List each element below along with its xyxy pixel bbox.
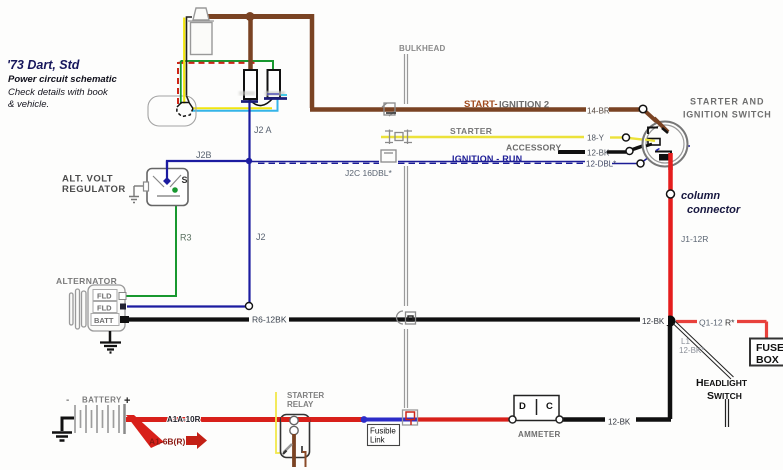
svg-text:ACCESSORY: ACCESSORY — [506, 143, 561, 153]
svg-text:IGNITION SWITCH: IGNITION SWITCH — [683, 110, 772, 120]
svg-text:14-BR: 14-BR — [587, 107, 610, 116]
svg-text:J2C 16DBL*: J2C 16DBL* — [345, 168, 392, 178]
svg-text:J2 A: J2 A — [254, 125, 272, 135]
svg-text:S: S — [182, 175, 188, 185]
svg-text:-: - — [66, 395, 69, 406]
svg-text:IGNITION 2: IGNITION 2 — [499, 100, 549, 111]
svg-text:ALTERNATOR: ALTERNATOR — [56, 276, 117, 286]
svg-text:BULKHEAD: BULKHEAD — [399, 44, 446, 53]
svg-text:J2B: J2B — [196, 150, 212, 160]
svg-text:A1-6B(R): A1-6B(R) — [149, 437, 186, 447]
svg-text:STARTER AND: STARTER AND — [690, 97, 765, 107]
svg-text:IGNITION - RUN: IGNITION - RUN — [452, 154, 522, 164]
svg-text:AMMETER: AMMETER — [518, 430, 561, 439]
svg-text:HEADLIGHT: HEADLIGHT — [696, 377, 748, 389]
svg-text:R3: R3 — [180, 233, 192, 243]
svg-text:STARTER: STARTER — [450, 126, 492, 136]
svg-text:& vehicle.: & vehicle. — [8, 99, 49, 110]
svg-text:12-BK: 12-BK — [587, 149, 610, 158]
svg-text:BATTERY: BATTERY — [82, 396, 122, 405]
svg-text:+: + — [124, 395, 130, 407]
svg-text:BOX: BOX — [756, 354, 779, 366]
svg-text:L1: L1 — [681, 337, 690, 346]
svg-text:ALT. VOLT: ALT. VOLT — [62, 174, 113, 185]
svg-text:12-BK: 12-BK — [608, 418, 631, 427]
svg-text:FLD: FLD — [97, 292, 112, 301]
svg-text:Link: Link — [370, 436, 386, 445]
svg-text:R6-12BK: R6-12BK — [252, 315, 287, 325]
svg-text:Power circuit schematic: Power circuit schematic — [8, 74, 117, 85]
svg-text:J1-12R: J1-12R — [681, 234, 708, 244]
svg-text:STARTER: STARTER — [287, 391, 324, 400]
svg-text:Check details with book: Check details with book — [8, 87, 109, 98]
svg-text:connector: connector — [687, 204, 741, 216]
svg-text:START-: START- — [464, 99, 498, 110]
svg-text:12-BK*: 12-BK* — [679, 346, 704, 355]
svg-text:Q1-12 R*: Q1-12 R* — [699, 318, 735, 328]
svg-text:RELAY: RELAY — [287, 400, 314, 409]
svg-text:SWITCH: SWITCH — [707, 390, 742, 402]
svg-text:FUSE: FUSE — [756, 342, 783, 354]
svg-text:12-DBL*: 12-DBL* — [586, 160, 616, 169]
svg-text:12-BK: 12-BK — [642, 317, 665, 326]
svg-text:18-Y: 18-Y — [587, 134, 605, 143]
svg-text:J2: J2 — [256, 232, 266, 242]
svg-text:C: C — [546, 401, 553, 412]
svg-text:D: D — [519, 401, 526, 412]
svg-text:FLD: FLD — [97, 304, 112, 313]
svg-text:'73 Dart, Std: '73 Dart, Std — [7, 58, 80, 72]
svg-text:A1A-10R: A1A-10R — [167, 415, 201, 424]
svg-text:BATT: BATT — [94, 316, 114, 325]
svg-text:Fusible: Fusible — [370, 427, 396, 436]
svg-text:REGULATOR: REGULATOR — [62, 184, 126, 195]
svg-text:column: column — [681, 190, 720, 202]
